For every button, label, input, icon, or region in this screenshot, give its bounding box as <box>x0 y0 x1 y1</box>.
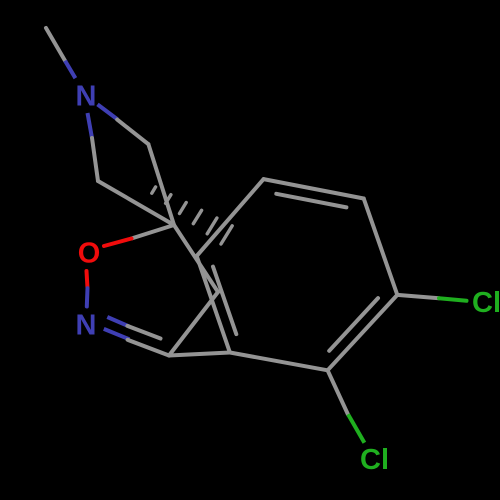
bond O1-N2 red half <box>87 271 88 288</box>
bond C5-O1 red half <box>104 239 132 247</box>
bond C3'-Cl green half <box>439 298 467 301</box>
bond C2'-Cl green half <box>348 414 364 443</box>
svg-text:Cl: Cl <box>360 444 389 476</box>
benzene edge C1'-C2' <box>230 353 328 371</box>
bond N1-Cb blue half <box>88 113 93 138</box>
bond N1-Ca gray half <box>117 120 148 145</box>
double bond N2=C3 main blue half <box>104 329 130 339</box>
double bond N2=C3 inner gray half <box>127 326 160 339</box>
double bond N2=C3 main gray half <box>128 340 169 356</box>
svg-text:N: N <box>76 81 97 113</box>
bond C4-C5 <box>174 225 218 292</box>
bond N1-Ca blue half <box>98 104 118 119</box>
hashed stereo wedge <box>152 187 232 244</box>
bond N1-Cb gray half <box>92 138 98 181</box>
bond C(methyl)-N1 blue half <box>65 61 75 78</box>
bond O1-N2 blue half <box>85 288 90 306</box>
bond C5-O1 gray half <box>132 225 175 239</box>
benzene edge C6'-C1' <box>197 256 230 353</box>
double bond N2=C3 inner blue half <box>107 317 129 327</box>
benzene edge C2'-C3' <box>328 295 398 370</box>
bond C3-C4 <box>169 292 218 356</box>
benzene inner double line C2'-C3' <box>329 298 378 351</box>
svg-text:Cl: Cl <box>472 287 500 319</box>
bond C3'-Cl gray half <box>397 295 439 298</box>
svg-text:O: O <box>78 238 101 270</box>
bond C(methyl)-N1 gray half <box>46 28 66 62</box>
benzene edge C4'-C5' <box>264 179 364 198</box>
benzene edge C3'-C4' <box>364 199 398 295</box>
benzene edge C5'-C6' <box>197 179 264 256</box>
bond Cb-C5 <box>98 181 174 225</box>
bond Ca-C5 <box>148 144 174 225</box>
svg-text:N: N <box>76 310 97 342</box>
benzene inner double line C5'-C4' <box>276 194 346 208</box>
bond C2'-Cl gray half <box>328 370 348 414</box>
benzene inner double line C6'-C1' <box>213 267 236 335</box>
bond C3-C1' (aryl attachment) <box>169 353 230 356</box>
